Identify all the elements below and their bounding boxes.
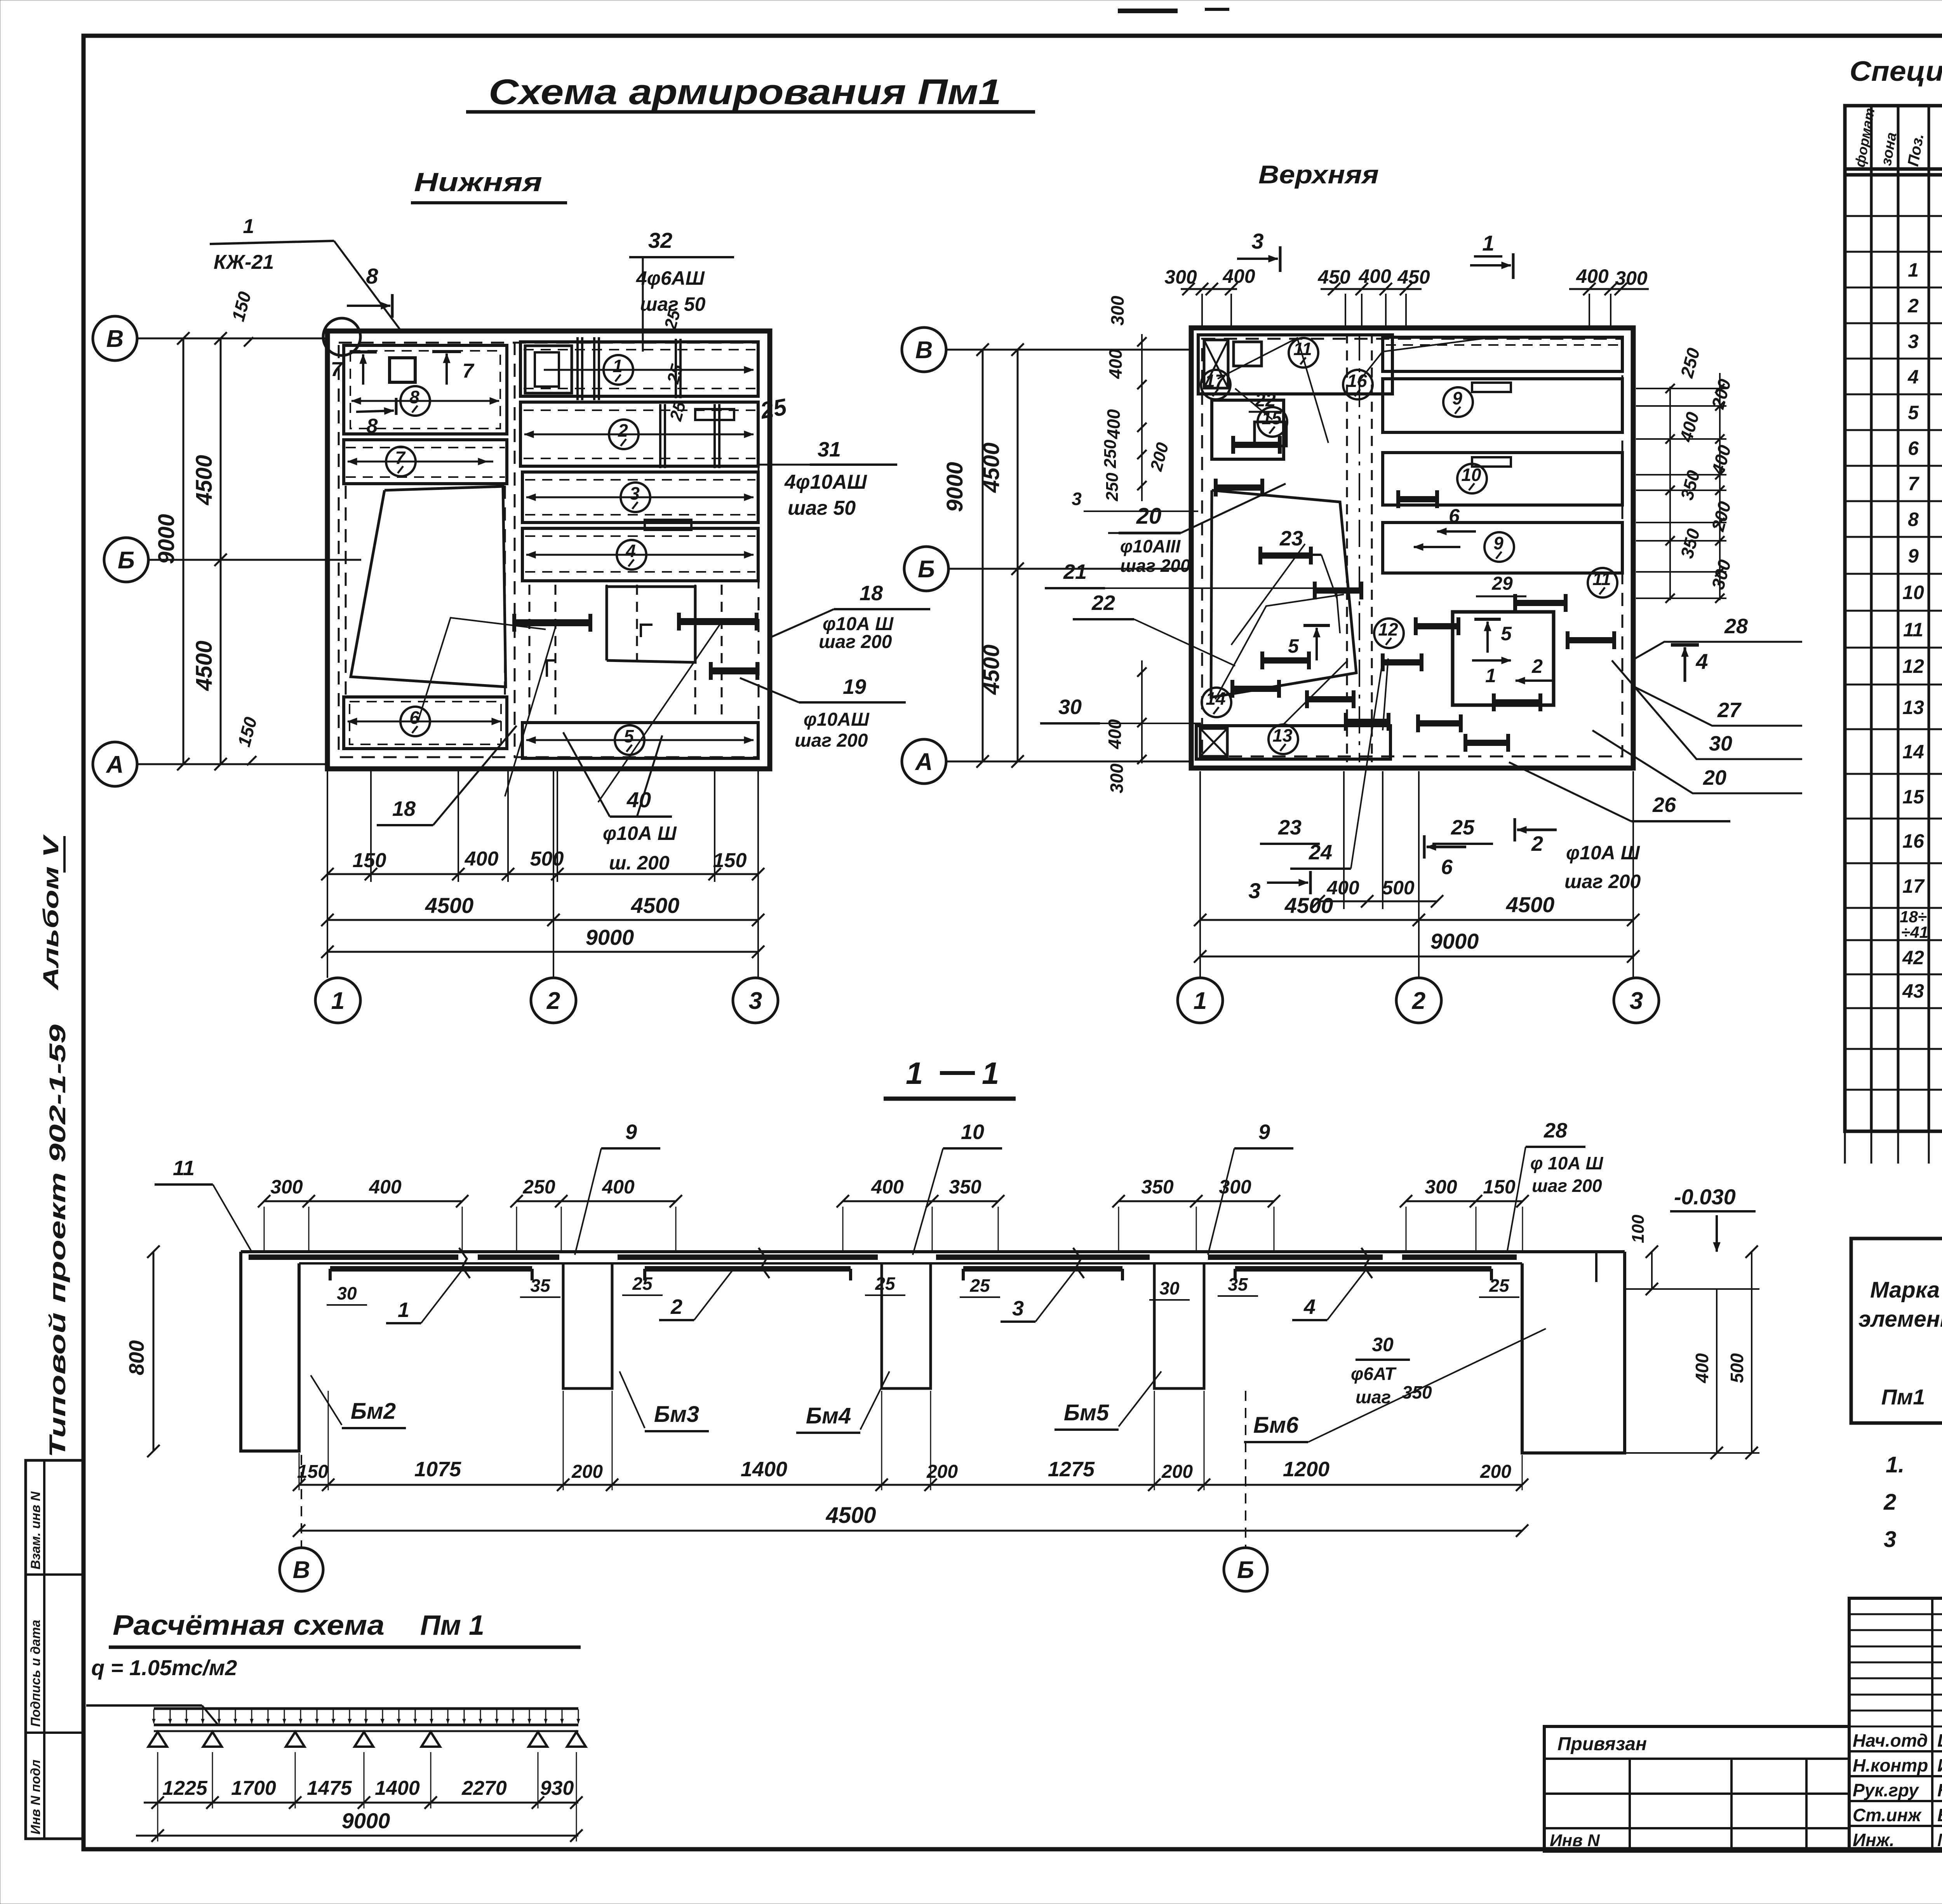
svg-text:1: 1 [1908, 259, 1919, 281]
svg-text:9000: 9000 [586, 925, 634, 949]
left plan outer wall [327, 331, 770, 769]
position bubble 10 [1457, 464, 1487, 493]
svg-text:25: 25 [632, 1273, 653, 1294]
svg-text:25: 25 [758, 394, 789, 424]
svg-text:500: 500 [1727, 1353, 1747, 1383]
right grid axis line B [948, 568, 1192, 570]
svg-text:300: 300 [1219, 1176, 1251, 1198]
position bubble 16 [1343, 370, 1373, 399]
thick top rebar bars in section [249, 1254, 458, 1260]
svg-text:1400: 1400 [741, 1458, 787, 1481]
right plan top-left mesh cluster [1198, 335, 1392, 394]
svg-text:9: 9 [625, 1120, 637, 1144]
svg-text:Инв N подл: Инв N подл [28, 1759, 43, 1834]
svg-text:Б: Б [918, 556, 935, 583]
svg-text:17: 17 [1205, 371, 1226, 391]
svg-text:4φ6АШ: 4φ6АШ [636, 267, 705, 289]
svg-text:Пм 1: Пм 1 [420, 1610, 484, 1641]
calc scheme span dims [144, 1802, 578, 1804]
svg-text:Бм5: Бм5 [1064, 1400, 1109, 1425]
svg-text:20: 20 [1703, 766, 1726, 789]
svg-text:5: 5 [1908, 402, 1919, 423]
svg-text:КЖ-21: КЖ-21 [214, 251, 274, 273]
svg-text:25: 25 [1451, 816, 1475, 839]
svg-text:φ6АТ: φ6АТ [1351, 1364, 1397, 1384]
right plan band 9 upper [1383, 379, 1622, 432]
rebar double verticals panel 1 [576, 337, 579, 400]
svg-text:14: 14 [1902, 741, 1924, 763]
section slab top line [241, 1250, 1625, 1253]
svg-text:1275: 1275 [1048, 1458, 1095, 1481]
svg-text:В: В [915, 337, 933, 364]
svg-text:Нижняя: Нижняя [414, 167, 542, 197]
svg-text:25: 25 [875, 1273, 896, 1294]
spec table bottom stubs [1845, 1131, 1929, 1132]
right dim verticals [1669, 387, 1671, 600]
svg-text:4500: 4500 [1284, 893, 1333, 918]
svg-text:8: 8 [1908, 509, 1919, 530]
svg-text:450: 450 [1317, 266, 1350, 288]
position bubble 11 top [1289, 338, 1318, 368]
right plan bottom dim 9000 [1200, 956, 1633, 958]
right plan band 10 [1383, 453, 1622, 505]
svg-text:А: А [106, 751, 124, 778]
svg-text:4500: 4500 [191, 641, 217, 691]
left plan mesh panel 3 band [522, 472, 758, 523]
svg-text:2: 2 [1531, 655, 1543, 677]
svg-text:27: 27 [1717, 699, 1742, 722]
svg-text:300: 300 [1425, 1176, 1457, 1198]
svg-text:9000: 9000 [342, 1808, 390, 1833]
dimension row 9000 [327, 951, 758, 953]
svg-text:ш. 200: ш. 200 [609, 852, 670, 874]
vyborka outer box [1851, 1239, 1942, 1423]
svg-text:Кунцевич: Кунцевич [1937, 1780, 1942, 1800]
svg-text:30: 30 [1058, 695, 1082, 719]
section grid circle V [301, 1455, 302, 1547]
central dashed corridor [1346, 333, 1348, 762]
svg-text:15: 15 [1902, 786, 1925, 808]
interior leader lines left plan [418, 618, 546, 723]
svg-text:150: 150 [353, 849, 386, 872]
svg-text:300: 300 [1107, 763, 1127, 793]
svg-text:9000: 9000 [942, 462, 968, 512]
svg-text:13: 13 [1272, 725, 1293, 746]
svg-text:400: 400 [1105, 349, 1126, 379]
svg-text:4500: 4500 [979, 442, 1004, 493]
vertical dimension line 4500x2 [220, 338, 222, 764]
svg-text:9: 9 [1493, 533, 1503, 553]
svg-text:φ10АШ: φ10АШ [804, 709, 870, 730]
svg-text:11: 11 [1592, 569, 1611, 589]
left plan inner dashed contour [339, 343, 759, 757]
right vertical dim 9000 [982, 350, 984, 761]
svg-text:400: 400 [871, 1176, 904, 1198]
distributed load beam [154, 1707, 578, 1710]
svg-text:18: 18 [860, 582, 883, 605]
svg-text:30: 30 [1159, 1278, 1180, 1298]
spec table row lines [1845, 215, 1942, 217]
section top dimension groups [264, 1200, 462, 1202]
svg-text:5: 5 [1288, 635, 1299, 657]
svg-text:300: 300 [1107, 296, 1128, 326]
svg-text:шаг 200: шаг 200 [1564, 871, 1641, 892]
right plan band top right [1383, 337, 1622, 371]
position bubble 4 with arrow [526, 554, 753, 556]
right plan pit rectangle [1453, 612, 1554, 705]
svg-text:φ 10А Ш: φ 10А Ш [1530, 1153, 1603, 1173]
detail circle at plan corner [323, 318, 360, 355]
position bubble 17 [1201, 370, 1230, 399]
svg-text:9: 9 [1452, 388, 1462, 408]
svg-text:4500: 4500 [979, 645, 1004, 695]
section dim 4500 [299, 1530, 1522, 1532]
grid axis line A [137, 763, 328, 765]
arrows in pit zone [1486, 622, 1489, 653]
svg-text:Б: Б [1237, 1557, 1254, 1583]
svg-text:4500: 4500 [425, 893, 474, 918]
svg-text:6: 6 [1441, 855, 1453, 879]
section mark 4 right [1684, 647, 1686, 682]
right bottom grid circle 1 [1178, 978, 1223, 1023]
svg-text:7: 7 [463, 360, 475, 382]
svg-text:26: 26 [1652, 793, 1676, 817]
svg-text:1075: 1075 [414, 1458, 461, 1481]
svg-text:1: 1 [1194, 988, 1207, 1014]
scan artifact dash top center [1118, 9, 1178, 13]
svg-text:шаг 200: шаг 200 [819, 632, 892, 652]
section mark 6 bottom [1427, 846, 1466, 848]
section slab soffit line [299, 1262, 1522, 1265]
section mark 2 bottom [1517, 829, 1557, 831]
svg-text:12: 12 [1902, 655, 1924, 677]
svg-text:6: 6 [1908, 437, 1919, 459]
svg-text:9000: 9000 [1430, 929, 1479, 953]
right plan bottom band [1196, 726, 1390, 759]
right grid circle B [904, 547, 948, 591]
left plan mesh panel 6 band [344, 697, 507, 749]
svg-text:1: 1 [243, 215, 254, 238]
leader label 27 right [1631, 685, 1802, 726]
left plan corner detail rects [525, 346, 572, 393]
svg-text:1: 1 [613, 356, 623, 376]
svg-text:31: 31 [818, 438, 841, 461]
svg-text:шаг 200: шаг 200 [795, 730, 868, 751]
right plan panel left mid [1212, 400, 1284, 459]
svg-text:250: 250 [1103, 472, 1122, 502]
svg-text:5: 5 [1501, 623, 1512, 645]
svg-text:350: 350 [949, 1176, 981, 1198]
svg-text:8: 8 [367, 415, 378, 437]
svg-text:Ст.инж: Ст.инж [1853, 1805, 1922, 1825]
svg-text:30: 30 [337, 1283, 357, 1303]
svg-text:А: А [915, 749, 933, 775]
svg-text:800: 800 [125, 1340, 148, 1375]
opening polygon lower right [607, 587, 695, 662]
right plan top dimension row [1181, 288, 1237, 290]
right grid circle A [902, 739, 946, 784]
svg-text:1700: 1700 [231, 1777, 276, 1799]
svg-text:Шейко: Шейко [1937, 1730, 1942, 1751]
svg-text:18: 18 [392, 797, 416, 820]
interior leader spiders right plan [1218, 338, 1328, 443]
svg-text:Расчётная схема: Расчётная схема [113, 1610, 385, 1641]
leader label 28 right [1635, 642, 1802, 658]
svg-text:400: 400 [465, 848, 499, 870]
svg-text:шаг: шаг [1356, 1387, 1391, 1407]
right dim leader stubs [1636, 388, 1726, 389]
svg-text:400: 400 [1103, 409, 1124, 439]
svg-text:4500: 4500 [191, 455, 217, 505]
svg-text:200: 200 [1161, 1462, 1193, 1482]
extension lines to bottom grid circles [327, 771, 328, 978]
spec table outer box [1845, 106, 1942, 1131]
section right dims 100 400 500 [1651, 1252, 1653, 1289]
svg-text:1.: 1. [1886, 1452, 1904, 1477]
central dashed separation line [514, 342, 516, 758]
position bubble 9 upper [1443, 387, 1473, 417]
position bubble 1 [544, 369, 753, 371]
title block privyazan table [1544, 1726, 1849, 1851]
svg-text:1: 1 [398, 1298, 409, 1322]
right plan band 9 lower [1383, 523, 1622, 573]
section rib Bm4 [882, 1263, 931, 1388]
position bubble 9 lower [1484, 532, 1514, 562]
svg-text:22: 22 [1091, 591, 1115, 615]
svg-text:шаг 50: шаг 50 [788, 497, 856, 519]
svg-text:300: 300 [270, 1176, 303, 1198]
svg-text:9: 9 [1908, 545, 1919, 567]
svg-text:3: 3 [1908, 331, 1919, 352]
svg-text:4: 4 [625, 541, 636, 561]
svg-text:13: 13 [1902, 697, 1924, 718]
svg-text:7: 7 [395, 448, 406, 468]
right bottom grid circle 2 [1396, 978, 1441, 1023]
section slab break marks [459, 1248, 470, 1278]
svg-text:1: 1 [331, 988, 345, 1014]
left margin stamp boxes [26, 1460, 84, 1839]
svg-text:24: 24 [1309, 841, 1332, 864]
svg-text:3: 3 [1630, 988, 1643, 1014]
svg-text:42: 42 [1902, 947, 1924, 969]
svg-text:3: 3 [1884, 1527, 1896, 1552]
svg-text:11: 11 [173, 1157, 195, 1180]
svg-text:4: 4 [1695, 649, 1708, 674]
svg-text:Инв N: Инв N [1550, 1831, 1600, 1850]
left dim vertical helper [1141, 334, 1143, 501]
svg-text:шаг 200: шаг 200 [1120, 556, 1190, 576]
dimension row 150-400-500-150 [327, 873, 758, 875]
right plan opening polygon [1211, 490, 1356, 697]
svg-text:35: 35 [1228, 1274, 1248, 1294]
svg-text:23: 23 [1278, 816, 1302, 839]
svg-text:4: 4 [1303, 1295, 1316, 1319]
position bubble 7 [348, 461, 493, 463]
bottom grid circle 3 [733, 978, 778, 1023]
position bubble 13 [1269, 725, 1298, 754]
svg-text:250: 250 [522, 1176, 555, 1198]
svg-text:450: 450 [1397, 266, 1430, 288]
svg-text:Б: Б [118, 547, 135, 574]
svg-text:400: 400 [602, 1176, 635, 1198]
svg-text:1400: 1400 [375, 1777, 420, 1799]
leader label 30 right [1612, 660, 1802, 759]
svg-text:1: 1 [1485, 665, 1496, 686]
svg-text:4φ10АШ: 4φ10АШ [784, 471, 867, 493]
right plan inner dashed contour [1202, 339, 1622, 756]
svg-text:30: 30 [1709, 732, 1732, 755]
left plan lower dashed strips [529, 585, 531, 723]
svg-text:32: 32 [648, 228, 672, 253]
svg-text:1: 1 [906, 1056, 923, 1090]
position bubble 14 [1202, 688, 1231, 717]
svg-text:400: 400 [1576, 265, 1609, 287]
svg-text:3: 3 [1072, 489, 1082, 509]
thick bottom rebar bars in section [330, 1266, 532, 1272]
svg-text:÷41: ÷41 [1901, 923, 1928, 941]
svg-text:φ10АIII: φ10АIII [1120, 536, 1181, 556]
section grid circle B [1245, 1391, 1246, 1547]
calc scheme total 9000 [136, 1835, 578, 1837]
right plan outer wall [1191, 328, 1633, 768]
svg-text:28: 28 [1544, 1119, 1567, 1142]
left plan mesh panel 7 band [344, 440, 507, 484]
svg-text:Бм6: Бм6 [1253, 1413, 1299, 1438]
bottom grid circle 1 [315, 978, 360, 1023]
spec table header row [1845, 167, 1942, 171]
svg-text:35: 35 [530, 1275, 551, 1296]
svg-text:350: 350 [1141, 1176, 1174, 1198]
svg-text:200: 200 [571, 1462, 603, 1482]
svg-text:8: 8 [366, 264, 378, 288]
left plan mesh panel 8 (top-left) [344, 345, 507, 434]
spec table column lines [1870, 106, 1873, 1131]
title block central signatures table [1849, 1598, 1942, 1851]
svg-text:23: 23 [1279, 527, 1303, 550]
svg-text:2: 2 [1531, 832, 1543, 855]
left plan mesh panel 4 band [522, 528, 758, 581]
section right end block [1522, 1252, 1625, 1453]
rebar double verticals panel 2 [659, 404, 661, 468]
svg-text:2: 2 [670, 1295, 682, 1319]
position bubble 15 [1258, 407, 1287, 437]
right plan extension lines bottom [1199, 771, 1201, 978]
svg-text:Схема армирования Пм1: Схема армирования Пм1 [489, 72, 1001, 112]
position bubble 11 right [1588, 568, 1617, 598]
svg-text:9000: 9000 [154, 514, 179, 564]
left plan large opening quadrilateral [351, 486, 506, 687]
svg-text:4500: 4500 [1506, 892, 1555, 917]
svg-text:17: 17 [1902, 875, 1925, 897]
svg-text:500: 500 [530, 848, 564, 870]
svg-text:5: 5 [624, 726, 634, 746]
svg-text:Альбом V: Альбом V [38, 834, 63, 991]
svg-text:В: В [293, 1557, 310, 1583]
section rib Bm3 [563, 1263, 612, 1388]
dimension row 4500-4500 [327, 919, 758, 921]
svg-text:300: 300 [1164, 266, 1197, 288]
vertical dimension line 9000 [183, 338, 184, 764]
section rib Bm5 [1154, 1263, 1204, 1388]
svg-text:Рук.гру: Рук.гру [1853, 1780, 1919, 1800]
svg-text:12: 12 [1378, 619, 1398, 639]
svg-text:3: 3 [630, 483, 640, 503]
grid axis line B [148, 559, 361, 561]
grid circle A [93, 742, 137, 786]
svg-text:4: 4 [1907, 366, 1919, 388]
left plan mesh panel 2 band [520, 402, 758, 466]
section bottom dim row [299, 1484, 1523, 1486]
svg-text:21: 21 [1063, 560, 1087, 584]
section mark 8 lower arrow [356, 411, 394, 412]
svg-text:10: 10 [961, 1120, 984, 1144]
section left wall [241, 1252, 299, 1451]
small hook details [547, 660, 556, 677]
svg-text:Привязан: Привязан [1557, 1734, 1647, 1754]
bottom grid circle 2 [531, 978, 576, 1023]
svg-text:100: 100 [1629, 1214, 1648, 1243]
bottom dim 400-500 right plan [1319, 901, 1437, 902]
extension verticals top right plan [1201, 294, 1203, 330]
svg-text:11: 11 [1903, 619, 1923, 641]
svg-text:φ10А Ш: φ10А Ш [603, 822, 677, 844]
svg-text:4500: 4500 [825, 1503, 876, 1528]
svg-text:Верхняя: Верхняя [1258, 160, 1379, 189]
svg-text:400: 400 [1222, 265, 1255, 287]
svg-text:300: 300 [1615, 267, 1648, 289]
svg-text:10: 10 [1461, 465, 1481, 485]
leader label 20 right lower [1592, 730, 1802, 793]
svg-text:Бм3: Бм3 [654, 1402, 699, 1427]
section mark 7 arrows in panel [362, 354, 364, 385]
svg-text:3: 3 [1012, 1297, 1024, 1320]
svg-text:2: 2 [1883, 1489, 1896, 1515]
svg-text:10: 10 [1902, 582, 1924, 603]
grid axis line V [137, 338, 328, 340]
svg-text:Спецификация элементов монол: Спецификация элементов монолитной констр… [1850, 56, 1942, 87]
svg-text:-0.030: -0.030 [1674, 1185, 1736, 1209]
svg-text:930: 930 [540, 1777, 574, 1799]
right plan bottom dim 4500x2 [1200, 919, 1633, 921]
position bubble 2 with arrow [524, 434, 753, 435]
svg-text:2270: 2270 [461, 1777, 507, 1799]
svg-text:элемента: элемента [1858, 1306, 1942, 1332]
svg-text:Бм2: Бм2 [351, 1399, 396, 1424]
svg-text:19: 19 [843, 675, 866, 699]
grid circle V [93, 316, 137, 361]
svg-text:шаг 200: шаг 200 [1532, 1176, 1602, 1196]
svg-text:6: 6 [409, 707, 419, 728]
svg-text:30: 30 [1372, 1334, 1394, 1355]
svg-text:Боровик: Боровик [1937, 1805, 1942, 1825]
left plan mesh panel 1 band [520, 342, 758, 396]
svg-text:φ10А Ш: φ10А Ш [1566, 842, 1640, 864]
svg-text:150: 150 [1483, 1176, 1516, 1198]
svg-text:Пм1: Пм1 [1881, 1385, 1925, 1409]
svg-text:200: 200 [1480, 1462, 1511, 1482]
right vertical dim 4500x2 [1017, 350, 1019, 761]
svg-text:400: 400 [1692, 1353, 1712, 1383]
svg-text:150: 150 [713, 849, 747, 872]
svg-text:1: 1 [1482, 231, 1494, 255]
svg-text:500: 500 [1382, 877, 1415, 899]
beam supports [148, 1732, 167, 1747]
svg-text:Нач.отд: Нач.отд [1853, 1730, 1928, 1751]
position bubble 12 [1374, 618, 1404, 648]
position bubble 8 with span arrow [352, 400, 499, 402]
thick rebar bars lower zone [514, 619, 590, 626]
svg-text:1200: 1200 [1283, 1458, 1329, 1481]
